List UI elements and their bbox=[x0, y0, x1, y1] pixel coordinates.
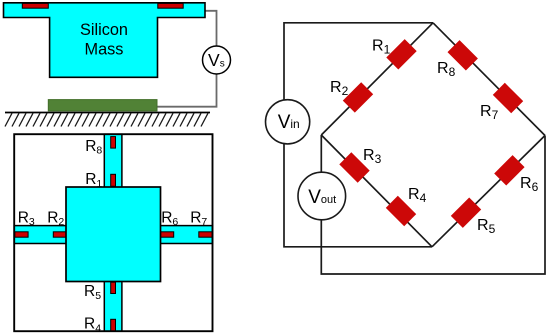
bridge arm bottom-right bbox=[432, 136, 545, 247]
resistor R5 bbox=[451, 197, 481, 227]
svg-text:R7: R7 bbox=[480, 103, 499, 122]
svg-text:Mass: Mass bbox=[85, 41, 124, 59]
svg-text:R3: R3 bbox=[18, 209, 35, 228]
die outline bbox=[14, 134, 212, 331]
svg-text:R6: R6 bbox=[161, 209, 178, 228]
resistor R2 bbox=[343, 82, 373, 112]
bridge arm top-right bbox=[433, 23, 545, 136]
piezoresistor R1 mark bbox=[111, 174, 116, 186]
resistor R4 bbox=[386, 196, 416, 226]
wire Vin bottom to bridge bottom node bbox=[284, 144, 432, 247]
electrode (green) bbox=[48, 100, 157, 111]
wire bridge left node to Vout top bbox=[320, 135, 322, 172]
voltage source Vs bbox=[203, 46, 231, 74]
piezoresistor R6 mark bbox=[160, 232, 173, 237]
piezoresistor R2 mark bbox=[53, 232, 66, 237]
svg-text:R6: R6 bbox=[520, 175, 539, 194]
svg-text:R7: R7 bbox=[190, 209, 207, 228]
svg-text:R4: R4 bbox=[84, 316, 101, 335]
svg-text:R8: R8 bbox=[437, 60, 456, 79]
piezoresistor R8 mark bbox=[111, 137, 116, 149]
resistor R3 bbox=[339, 152, 369, 182]
piezoresistor R5 mark bbox=[111, 282, 116, 293]
wire Vin top to bridge top node bbox=[284, 23, 433, 100]
svg-text:R1: R1 bbox=[372, 38, 391, 57]
piezoresistor mark right (cross-section) bbox=[158, 3, 183, 8]
piezoresistor R3 mark bbox=[15, 232, 28, 237]
wire bbox=[205, 11, 217, 46]
svg-text:Silicon: Silicon bbox=[80, 21, 128, 39]
resistor R7 bbox=[493, 83, 523, 113]
svg-text:R8: R8 bbox=[85, 138, 102, 157]
proof mass (center square) bbox=[66, 187, 161, 282]
piezoresistor mark left (cross-section) bbox=[22, 3, 48, 8]
svg-text:R5: R5 bbox=[477, 217, 496, 236]
wire bbox=[157, 74, 217, 107]
bridge arm bottom-left bbox=[321, 135, 432, 247]
bridge arm top-left bbox=[321, 23, 433, 135]
svg-text:R4: R4 bbox=[408, 186, 427, 205]
ground line bbox=[5, 112, 210, 114]
resistor R6 bbox=[494, 155, 524, 185]
vertical flexure beam bbox=[104, 134, 122, 331]
svg-text:R2: R2 bbox=[330, 79, 349, 98]
silicon mass with top membrane bbox=[4, 3, 206, 78]
wire Vout bottom to bridge right node bbox=[321, 136, 545, 275]
ground hatching bbox=[5, 113, 208, 126]
voltage source Vout bbox=[298, 172, 346, 220]
resistor R1 bbox=[386, 39, 416, 69]
horizontal flexure beam bbox=[14, 226, 212, 244]
piezoresistor R7 mark bbox=[199, 232, 212, 237]
svg-text:R3: R3 bbox=[363, 147, 382, 166]
svg-text:R2: R2 bbox=[47, 209, 64, 228]
voltage source Vin bbox=[266, 100, 310, 144]
svg-text:R1: R1 bbox=[85, 171, 102, 190]
svg-text:R5: R5 bbox=[84, 283, 101, 302]
piezoresistor R4 mark bbox=[111, 319, 116, 331]
resistor R8 bbox=[447, 40, 477, 70]
